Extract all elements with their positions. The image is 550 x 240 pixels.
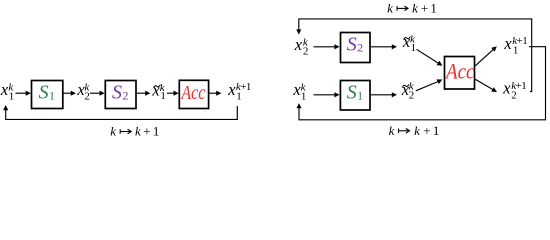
block Acc (179, 80, 208, 108)
svg-text:1: 1 (9, 91, 15, 103)
svg-text:k: k (387, 0, 393, 15)
wire S1 to x2tilde k (371, 92, 397, 97)
svg-text:1: 1 (430, 0, 437, 15)
svg-text:2: 2 (357, 41, 363, 55)
node x1tilde k (151, 80, 166, 102)
block S2 (105, 81, 136, 109)
svg-text:+: + (423, 123, 430, 138)
node x1k+1 (right diagram top output) (503, 34, 527, 57)
svg-text:x: x (503, 34, 512, 53)
feedback wire x2k+1 to x2k (top loop) (296, 19, 531, 92)
svg-text:1: 1 (49, 89, 55, 103)
svg-text:Acc: Acc (444, 58, 474, 83)
svg-text:+: + (143, 124, 150, 139)
node x2tilde k (right diagram) (401, 80, 415, 102)
svg-text:x: x (502, 79, 511, 98)
wire S2 to x1tilde k (371, 44, 397, 49)
feedback wire k to k+1 (left diagram) (3, 105, 237, 119)
block S1 (right diagram) (340, 81, 370, 111)
node x1k (left input) (0, 80, 14, 103)
wire x1tilde to Acc (167, 91, 179, 96)
svg-text:2: 2 (122, 89, 128, 103)
svg-text:1: 1 (236, 90, 242, 102)
wire x1k to S1 (314, 92, 340, 97)
svg-text:2: 2 (303, 45, 309, 57)
svg-text:S: S (347, 82, 357, 104)
block S2 (right diagram) (341, 33, 371, 63)
svg-text:1: 1 (153, 124, 160, 139)
wire S1 to x2k (64, 91, 76, 96)
node x1k (right diagram bottom input) (292, 80, 306, 103)
svg-text:x: x (227, 80, 236, 99)
block S1 (32, 81, 63, 109)
wire Acc to x2k+1 (diagonal down) (475, 79, 497, 92)
label k mapsto k+1 (bottom) (389, 123, 440, 138)
wire x2k to S2 (90, 91, 105, 96)
svg-text:S: S (347, 34, 357, 56)
svg-text:k: k (414, 123, 420, 138)
node x1k+1 (left output) (227, 80, 251, 102)
svg-text:1: 1 (357, 89, 363, 103)
wire S2 to x1tilde (137, 91, 151, 96)
svg-text:x: x (294, 35, 303, 54)
svg-text:1: 1 (160, 90, 166, 102)
node x2k (right diagram top input) (294, 35, 309, 58)
node x2k (intermediate) (76, 80, 90, 103)
svg-text:S: S (39, 82, 49, 104)
svg-text:S: S (112, 82, 122, 104)
wire x1tilde to Acc (diagonal) (417, 49, 443, 66)
svg-text:k: k (110, 124, 116, 139)
svg-text:2: 2 (84, 91, 90, 103)
node x2k+1 (right diagram bottom output) (502, 79, 526, 102)
svg-text:Acc: Acc (180, 82, 206, 104)
svg-text:1: 1 (301, 90, 307, 102)
block Acc (right diagram) (444, 57, 474, 90)
svg-text:1: 1 (411, 42, 417, 54)
wire x2tilde to Acc (diagonal) (416, 79, 443, 90)
wire Acc to x1k+1 (diagonal up) (475, 46, 497, 66)
node x1tilde k (right diagram) (402, 32, 416, 54)
label k mapsto k+1 (top) (387, 0, 437, 15)
svg-text:2: 2 (511, 89, 517, 101)
svg-text:+: + (421, 0, 428, 15)
svg-text:k: k (412, 0, 418, 15)
label k mapsto k+1 (left diagram) (110, 124, 159, 139)
wire x1k to S1 (16, 91, 31, 96)
svg-text:k: k (389, 123, 395, 138)
svg-text:2: 2 (409, 89, 415, 101)
wire Acc to x1k+1 (209, 91, 221, 96)
svg-text:k: k (135, 124, 141, 139)
svg-text:1: 1 (513, 45, 519, 57)
feedback wire x1k+1 to x1k (bottom loop) (296, 47, 545, 120)
wire x2k to S2 (314, 44, 340, 49)
svg-text:1: 1 (433, 123, 440, 138)
